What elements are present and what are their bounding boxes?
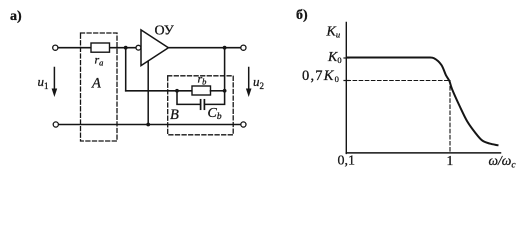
svg-text:rb: rb (198, 72, 207, 87)
wire output tap down (224, 48, 226, 91)
node output tap (223, 46, 227, 50)
svg-text:ОУ: ОУ (155, 24, 174, 39)
x-axis (346, 152, 500, 154)
input terminal top left (53, 45, 58, 50)
wire bottom rail (59, 124, 241, 126)
y-axis (345, 23, 347, 154)
wire rb right (211, 90, 225, 92)
wire input top (58, 47, 136, 49)
capacitor Cb (201, 100, 205, 109)
tick K0 (344, 57, 349, 59)
dashed block B (168, 76, 234, 135)
resistor rb (192, 86, 211, 95)
wire capacitor branch left (177, 91, 200, 105)
svg-text:K0: K0 (327, 50, 342, 65)
node rail junction (146, 123, 150, 127)
dashed cutoff vertical (449, 81, 451, 153)
response curve (347, 57, 498, 145)
op-amp U1 triangle (141, 30, 168, 66)
svg-text:0,1: 0,1 (338, 154, 356, 169)
node B-right (223, 89, 227, 93)
node B-left (175, 89, 179, 93)
wire feedback vertical from node (125, 48, 127, 91)
output terminal top right (241, 45, 246, 50)
dashed block A (81, 33, 118, 141)
svg-text:Cb: Cb (208, 106, 222, 122)
tick 0.7K0 (344, 80, 349, 82)
svg-text:а): а) (10, 9, 22, 24)
resistor ra (91, 43, 110, 52)
node after ra (124, 46, 128, 50)
inverting input circle (136, 45, 141, 50)
svg-text:1: 1 (447, 153, 454, 168)
input terminal bottom left (53, 122, 58, 127)
svg-text:B: B (170, 107, 179, 123)
svg-text:Ku: Ku (326, 25, 341, 40)
wire feedback horizontal (126, 90, 177, 92)
svg-text:0,7K0: 0,7K0 (302, 68, 340, 84)
u1 arrow (52, 68, 58, 98)
wire capacitor branch right (205, 91, 224, 105)
svg-text:u1: u1 (38, 74, 49, 91)
dashed level 0.7K0 (347, 80, 450, 82)
svg-text:ra: ra (95, 53, 104, 68)
wire rb left (177, 90, 192, 92)
u2 arrow (246, 68, 252, 98)
wire output (168, 47, 240, 49)
svg-text:A: A (91, 76, 101, 92)
svg-text:б): б) (296, 8, 308, 23)
wire noninverting input to rail (147, 62, 149, 125)
svg-text:ω/ωс: ω/ωс (489, 153, 517, 171)
output terminal bottom right (241, 122, 246, 127)
svg-text:u2: u2 (253, 74, 264, 91)
